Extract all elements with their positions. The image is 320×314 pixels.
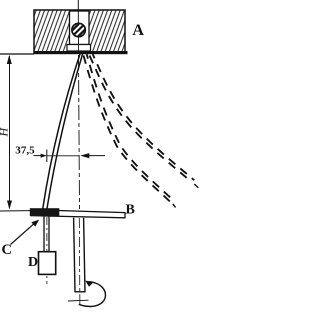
dimension 37,5 (15, 145, 105, 162)
stem/weight centerline (46, 217, 48, 284)
pendulum rod (solid, left position) (43, 54, 83, 209)
H dimension line (7, 55, 12, 210)
rotation arrow around column (79, 281, 106, 307)
anvil table bar (30, 210, 125, 218)
specimen block C (dark) (30, 208, 60, 216)
svg-text:B: B (126, 202, 135, 217)
swing position inner (double dashed curve) (84, 54, 175, 202)
clevis lower flange (67, 45, 91, 52)
inner swing end tick (173, 204, 176, 208)
slot opening in support (70, 11, 90, 45)
svg-text:H: H (0, 127, 11, 138)
anvil table top line (left extension) (0, 210, 30, 212)
svg-text:C: C (2, 242, 12, 258)
support block A (hatched) (34, 10, 125, 53)
column centerline (78, 218, 81, 306)
weight D (39, 252, 56, 275)
svg-text:37,5: 37,5 (15, 145, 34, 156)
svg-text:A: A (132, 22, 144, 39)
pivot pin (hatched circle) (69, 20, 89, 40)
support column (74, 218, 86, 292)
leader arrow to C (11, 220, 40, 245)
block bottom thick edge (34, 51, 128, 54)
vertical centerline through pivot (77, 0, 79, 11)
axis cross line (68, 299, 89, 302)
outer swing end tick (194, 184, 198, 188)
ceiling surface line (left of block) (0, 53, 34, 55)
svg-text:D: D (28, 255, 38, 270)
stem below specimen (44, 216, 49, 252)
swing position outer (double dashed curve) (90, 54, 195, 181)
